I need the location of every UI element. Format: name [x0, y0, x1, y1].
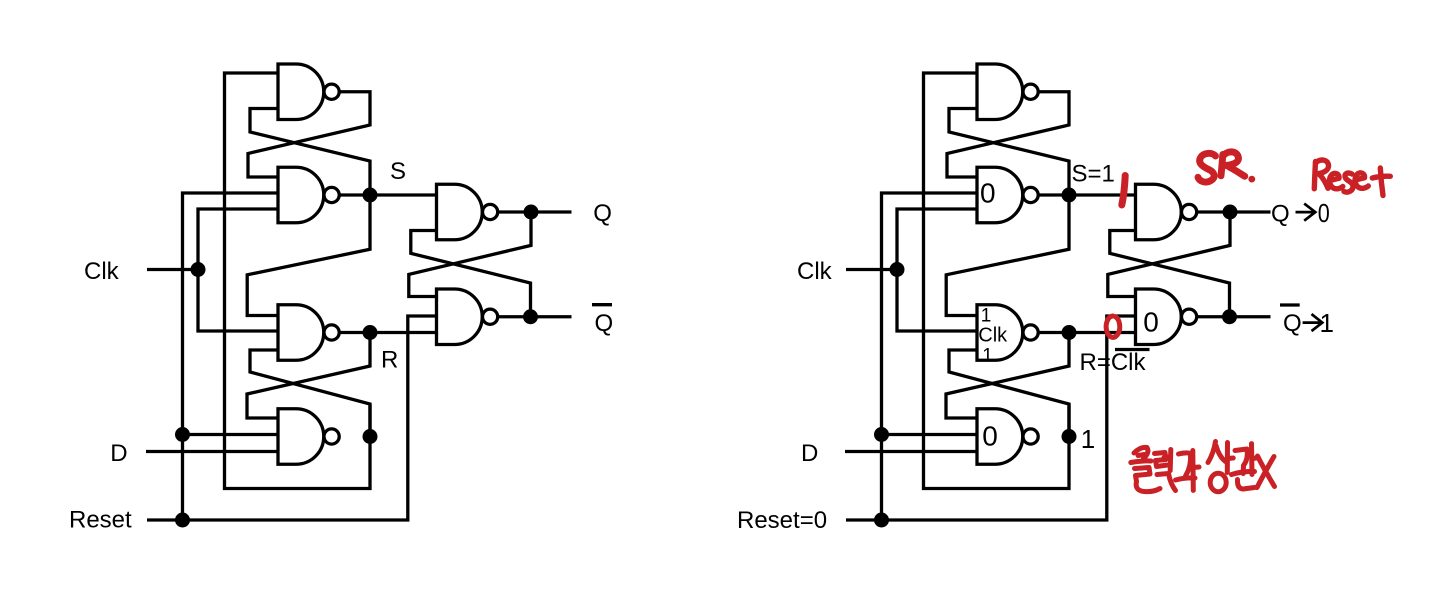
wire: D input lead to G4 bottom input (right) — [845, 450, 977, 453]
wire: Clk branch up to G2 bottom input (right) — [897, 209, 977, 270]
wire: Q feedback down-diagonal to G6 top input (left) — [409, 212, 531, 297]
wire: node R horizontal G3 output to G6 bottom input (left) — [340, 331, 437, 334]
nand gate G2 S latch (left) — [278, 167, 339, 223]
wire: Clk input lead (right) — [846, 268, 897, 271]
junction node R (left) — [363, 325, 378, 340]
red handwritten 0 on R wire (right) — [1106, 316, 1120, 337]
wire: Qbar feedback up-diagonal to G5 bottom input (right) — [1110, 231, 1230, 317]
nand gate G1 top latch (left) — [278, 64, 339, 120]
svg-text:Q: Q — [595, 310, 614, 337]
wire: node S horizontal G2 output to G5 top input (right) — [1039, 193, 1136, 196]
junction node Qbar (left) — [523, 309, 538, 324]
wire: G4 output feedback down/left/up to G1 top input (left) — [225, 73, 371, 489]
arrow of Q goes to 0 (right) — [1296, 204, 1316, 221]
nand gate G1 top latch (right) — [977, 64, 1038, 120]
red handwritten SR. — [1198, 152, 1255, 183]
junction Reset node (right) — [874, 513, 889, 528]
svg-text:Q: Q — [593, 200, 612, 227]
wire: Qbar feedback up-diagonal to G5 bottom input (left) — [411, 231, 531, 317]
wire: G5 output to Q (right) — [1197, 210, 1271, 213]
wire: Reset branch to G4 middle input (left) — [183, 433, 279, 436]
overbar of Qbar (left) — [592, 303, 612, 306]
wire: D input lead to G4 bottom input (left) — [146, 450, 278, 453]
wire: Q feedback down-diagonal to G6 top input (right) — [1108, 212, 1230, 297]
red tick mark on S wire (right) — [1122, 176, 1125, 206]
svg-text:Q: Q — [1283, 310, 1302, 337]
junction Reset to G4 (left) — [175, 427, 190, 442]
nand gate G6 output Qbar (left) — [437, 289, 498, 345]
junction node Qbar (right) — [1222, 309, 1237, 324]
svg-text:Clk: Clk — [797, 258, 833, 285]
wire: G5 output to Q (left) — [498, 210, 572, 213]
overbar of Clk in R=Clk (right) — [1115, 348, 1150, 351]
svg-text:Clk: Clk — [978, 325, 1008, 347]
wire: node R horizontal G3 output to G6 bottom input (right) — [1039, 331, 1136, 334]
svg-text:D: D — [801, 440, 818, 467]
junction Reset node (left) — [175, 513, 190, 528]
junction G4 output node (right) — [1062, 429, 1077, 444]
junction Clk node (left) — [191, 262, 206, 277]
svg-text:S=1: S=1 — [1072, 161, 1115, 188]
svg-text:Clk: Clk — [84, 258, 120, 285]
nand gate G4 bottom latch (right) — [977, 409, 1038, 465]
svg-text:Reset=0: Reset=0 — [737, 507, 827, 534]
svg-text:0: 0 — [1318, 198, 1330, 228]
junction node S (right) — [1062, 188, 1077, 203]
svg-text:1: 1 — [1081, 424, 1095, 454]
nand gate G5 output Q (right) — [1136, 184, 1197, 240]
overbar of Qbar (right) — [1280, 303, 1300, 306]
wire: node R down-diagonal to G4 top input (left) — [247, 333, 370, 419]
wire: Clk branch down to G3 middle input (left) — [198, 270, 278, 332]
nand gate G5 output Q (left) — [437, 184, 498, 240]
left diagram: D flip-flop from NAND gates — [69, 64, 613, 534]
junction node Q (left) — [524, 205, 539, 220]
wire: Reset input lead and run to G6 middle input (left) — [147, 316, 437, 520]
wire: Reset input lead and run to G6 middle input (right) — [846, 316, 1136, 520]
svg-text:1: 1 — [1320, 308, 1334, 338]
wire: Clk input lead (left) — [147, 268, 198, 271]
red handwritten Reset — [1314, 160, 1390, 195]
nand gate G3 R latch (right) — [977, 305, 1038, 361]
svg-text:1: 1 — [982, 346, 993, 367]
wire: G4 output feedback down/left/up to G1 top input (right) — [924, 73, 1070, 489]
wire: node R down-diagonal to G4 top input (right) — [946, 333, 1069, 419]
wire: Reset branch up to G2 middle input (left) — [183, 193, 279, 520]
junction Reset to G4 (right) — [874, 427, 889, 442]
arrow of Qbar goes to 1 (right) — [1303, 314, 1323, 331]
wire: node S up-diagonal to G1 bottom input (right) — [949, 109, 1069, 196]
junction node R (right) — [1062, 325, 1077, 340]
red handwritten Korean klleokgwa sanggwan X — [1131, 442, 1275, 492]
wire: Reset branch to G4 middle input (right) — [882, 433, 978, 436]
nand gate G2 S latch (right) — [977, 167, 1038, 223]
wire: Reset branch up to G2 middle input (right) — [882, 193, 978, 520]
wire: node S up-diagonal to G1 bottom input (left) — [250, 109, 370, 196]
svg-text:D: D — [110, 440, 127, 467]
wire: G4 output diagonal up to G3 bottom input (left) — [250, 350, 370, 437]
nand gate G4 bottom latch (left) — [278, 409, 339, 465]
wire: G4 output diagonal up to G3 bottom input (right) — [949, 350, 1069, 437]
junction node S (left) — [363, 188, 378, 203]
wire: Clk branch down to G3 middle input (right) — [897, 270, 977, 332]
wire: G6 output to Qbar (left) — [498, 315, 572, 318]
wire: G1 output down-diagonal to G2 top input (right) — [947, 92, 1069, 177]
wire: node S down-diagonal to G3 top input (right) — [946, 195, 1069, 316]
wire: G6 output to Qbar (right) — [1197, 315, 1271, 318]
svg-text:0: 0 — [982, 421, 998, 452]
nand gate G6 output Qbar (right) — [1136, 289, 1197, 345]
svg-text:R=Clk: R=Clk — [1080, 349, 1147, 376]
svg-text:R: R — [381, 347, 398, 374]
svg-text:0: 0 — [980, 178, 996, 209]
wire: node S down-diagonal to G3 top input (left) — [247, 195, 370, 316]
junction G4 output node (left) — [363, 429, 378, 444]
junction Clk node (right) — [890, 262, 905, 277]
svg-text:Reset: Reset — [69, 507, 132, 534]
right diagram: annotated copy of D flip-flop — [737, 64, 1390, 534]
wire: node S horizontal G2 output to G5 top input (left) — [340, 193, 437, 196]
nand gate G3 R latch (left) — [278, 305, 339, 361]
svg-text:S: S — [390, 158, 406, 185]
wire: G1 output down-diagonal to G2 top input (left) — [248, 92, 370, 177]
wire: Clk branch up to G2 bottom input (left) — [198, 209, 278, 270]
junction node Q (right) — [1223, 205, 1238, 220]
svg-text:0: 0 — [1143, 307, 1159, 338]
svg-text:Q: Q — [1271, 201, 1290, 228]
